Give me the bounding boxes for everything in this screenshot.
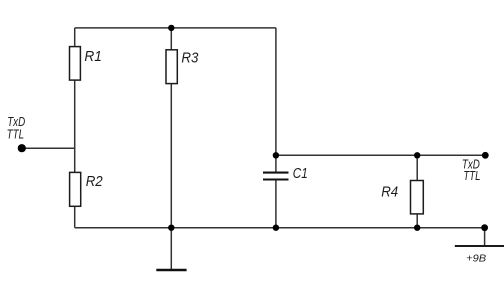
wire left rail lower bbox=[74, 206, 76, 228]
resistor R3 bbox=[166, 50, 199, 84]
wire R4 top bbox=[416, 155, 418, 180]
capacitor C1 bbox=[263, 165, 308, 182]
wire C1 bottom bbox=[275, 180, 277, 227]
node junction R3 bottom bbox=[168, 225, 174, 231]
resistor R1 bbox=[70, 47, 102, 81]
wire mid rail bbox=[276, 154, 485, 156]
svg-text:R2: R2 bbox=[86, 173, 104, 190]
wire left rail middle bbox=[74, 80, 76, 173]
node junction R4 mid bbox=[414, 152, 420, 158]
svg-text:TTL: TTL bbox=[463, 169, 480, 183]
label TxD TTL left bbox=[7, 115, 26, 141]
wire bottom rail bbox=[75, 227, 485, 229]
wire R3 bottom to ground bbox=[170, 84, 172, 271]
node junction C1 mid bbox=[273, 152, 279, 158]
power rail +9V bar bbox=[455, 245, 504, 247]
wire R4 bottom bbox=[416, 214, 418, 228]
svg-text:R3: R3 bbox=[181, 50, 199, 67]
node junction C1 bottom bbox=[273, 225, 279, 231]
wire top rail bbox=[75, 27, 276, 29]
svg-text:+9B: +9B bbox=[466, 252, 486, 264]
wire C1 branch vertical bbox=[275, 28, 277, 172]
wire TxD input bbox=[22, 147, 75, 149]
node junction R4 bottom bbox=[414, 225, 420, 231]
svg-text:TTL: TTL bbox=[7, 127, 25, 141]
svg-text:R1: R1 bbox=[84, 48, 102, 65]
wire left rail upper bbox=[74, 28, 76, 47]
label TxD TTL right bbox=[462, 158, 481, 183]
ground bbox=[156, 269, 186, 272]
resistor R4 bbox=[381, 181, 423, 214]
wire +9V drop bbox=[484, 228, 486, 246]
resistor R2 bbox=[70, 172, 104, 206]
svg-text:R4: R4 bbox=[381, 184, 398, 201]
node +9V terminal bbox=[481, 224, 488, 231]
svg-text:C1: C1 bbox=[293, 165, 308, 182]
wire R3 top bbox=[170, 28, 172, 50]
node TxD input terminal bbox=[18, 144, 26, 152]
node junction R3 top bbox=[168, 25, 174, 31]
node TxD output terminal bbox=[482, 152, 489, 159]
